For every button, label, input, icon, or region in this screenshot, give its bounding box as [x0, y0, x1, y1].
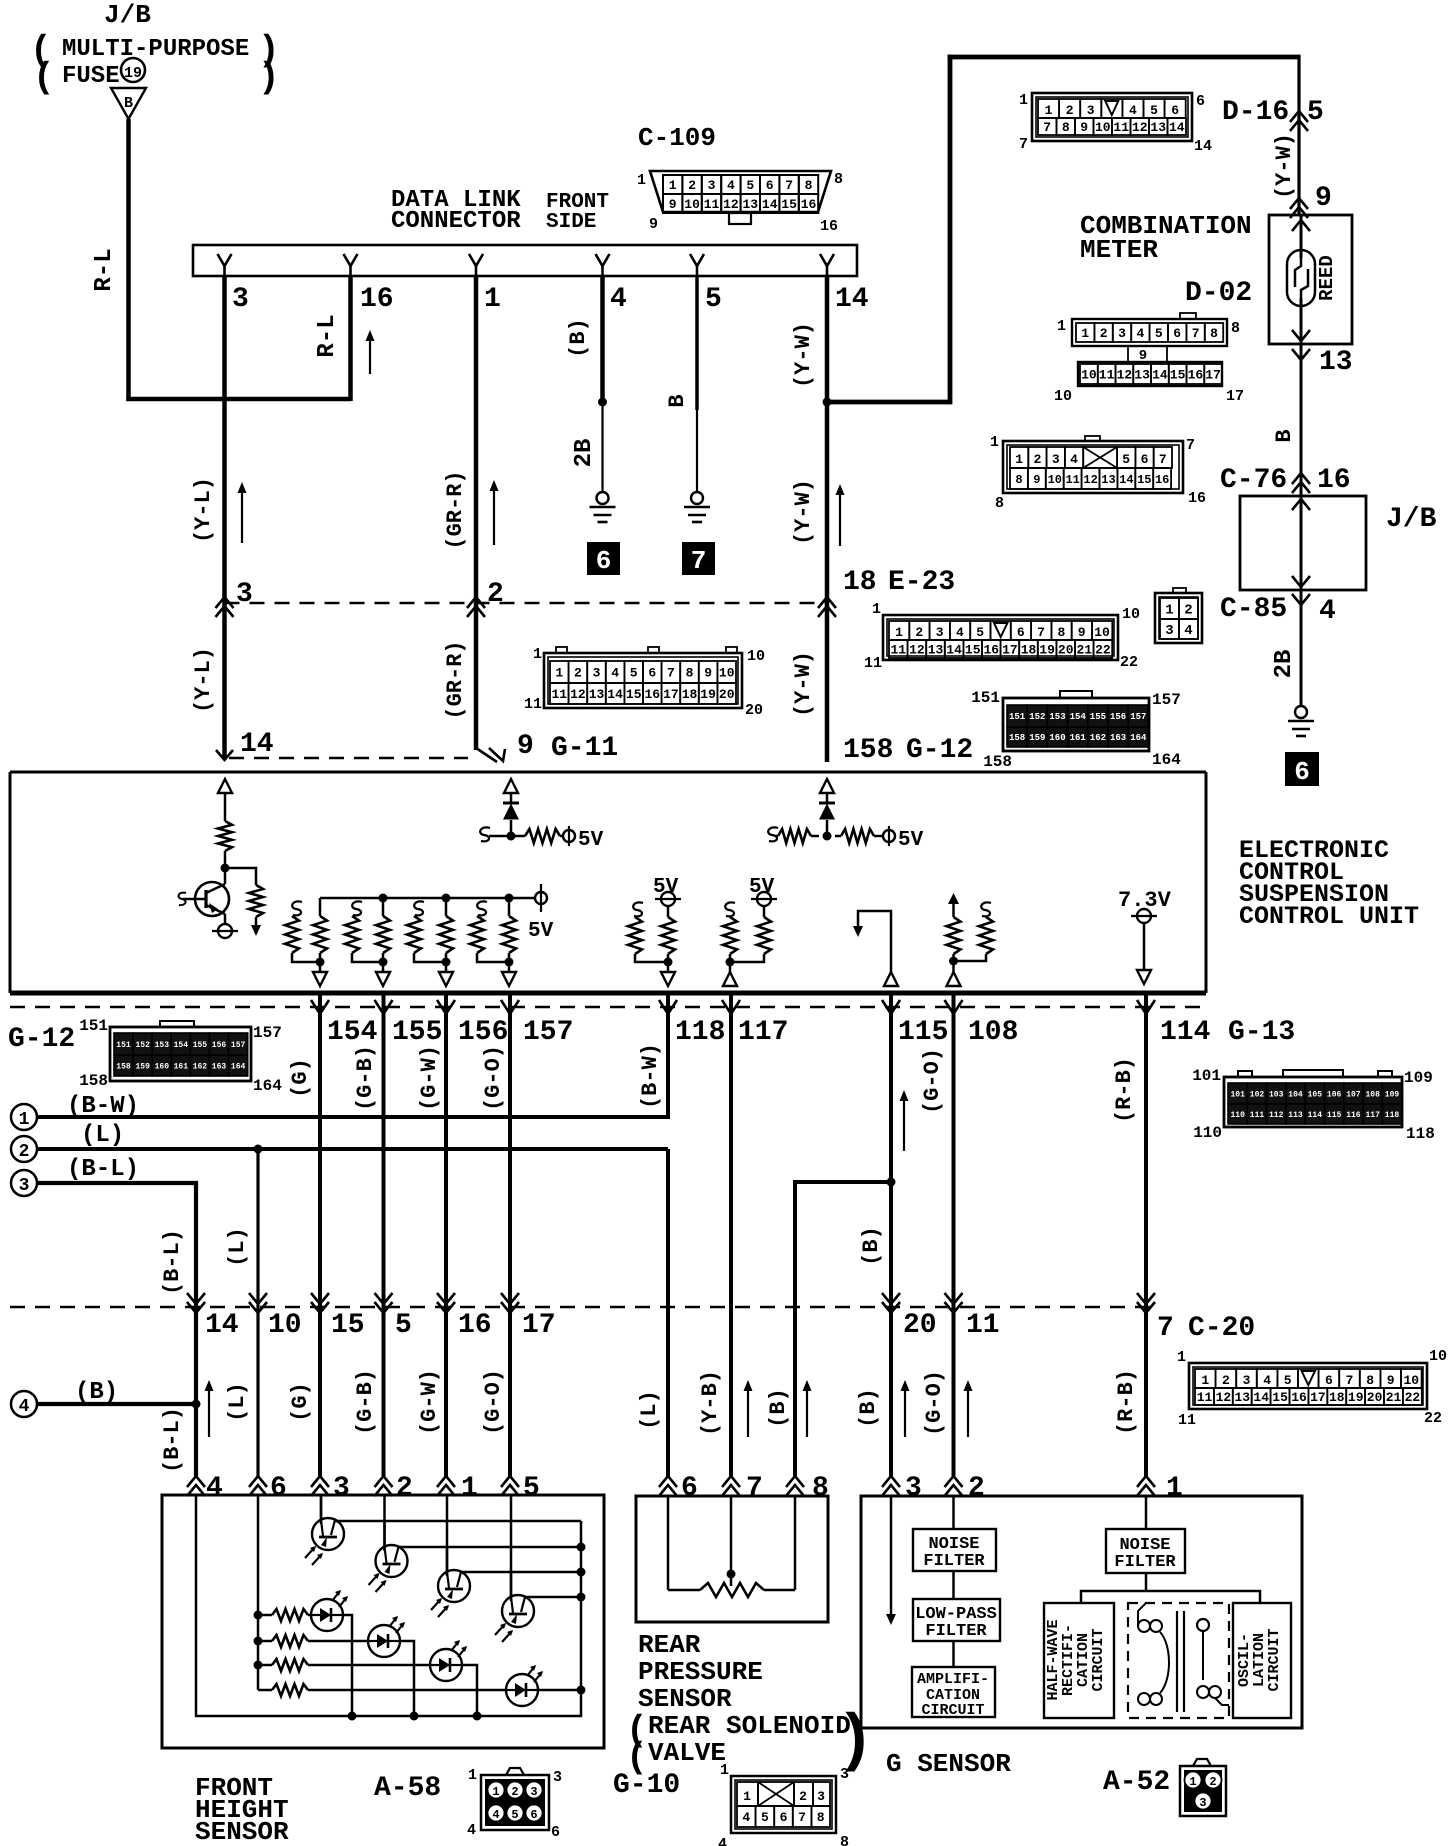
svg-text:FILTER: FILTER [925, 1622, 987, 1641]
svg-text:1: 1 [1201, 1373, 1209, 1388]
svg-text:12: 12 [1216, 1390, 1232, 1405]
photo arrows PT2 [369, 1573, 387, 1592]
svg-text:152: 152 [135, 1041, 150, 1050]
svg-text:110: 110 [1193, 1124, 1222, 1142]
svg-text:11: 11 [864, 655, 882, 672]
svg-text:10: 10 [1054, 388, 1072, 405]
junction dot pin 14 [823, 398, 832, 407]
connector line C-20 dashed [10, 1306, 1158, 1308]
resistor pair pin 154 right [313, 898, 327, 972]
wire ecu pin 157 [508, 995, 512, 1014]
potentiometer [668, 1496, 795, 1597]
svg-text:2: 2 [799, 1789, 807, 1804]
ecu pin 156 output arrow [439, 972, 453, 986]
svg-text:5: 5 [630, 666, 638, 681]
half-wave rectification circuit box [1044, 1603, 1114, 1718]
svg-text:158: 158 [1009, 733, 1025, 743]
svg-text:(G-W): (G-W) [417, 1045, 442, 1111]
svg-text:157: 157 [253, 1024, 282, 1042]
svg-text:22: 22 [1120, 654, 1138, 671]
arrow up (GR-R) [493, 488, 495, 545]
svg-text:101: 101 [1192, 1067, 1221, 1085]
svg-text:113: 113 [1288, 1111, 1303, 1120]
svg-text:106: 106 [1327, 1090, 1342, 1099]
wire [952, 1571, 955, 1599]
svg-text:1: 1 [461, 1473, 478, 1504]
diode D1 [503, 803, 519, 836]
chevron reed pin 13 [1292, 349, 1310, 360]
svg-text:1: 1 [1166, 1473, 1183, 1504]
svg-text:CIRCUIT: CIRCUIT [1090, 1628, 1107, 1691]
svg-text:10: 10 [1081, 368, 1097, 383]
bus junction dot [348, 1712, 357, 1721]
svg-text:160: 160 [1049, 733, 1065, 743]
svg-text:14: 14 [240, 729, 274, 760]
wire R-L from fuse to pin 16 [126, 119, 350, 401]
svg-text:164: 164 [1152, 751, 1181, 769]
connector line E-23 dashed [225, 602, 828, 604]
svg-text:1: 1 [1165, 603, 1173, 619]
svg-text:9: 9 [1078, 625, 1086, 640]
svg-text:(B-L): (B-L) [160, 1407, 185, 1473]
svg-text:19: 19 [1348, 1390, 1364, 1405]
ground symbol right [1295, 706, 1307, 718]
svg-text:VALVE: VALVE [648, 1738, 726, 1768]
svg-text:6: 6 [270, 1473, 287, 1504]
svg-text:(L): (L) [225, 1382, 250, 1422]
svg-text:9: 9 [517, 731, 534, 762]
arrow up (Y-W) [839, 492, 841, 546]
chevron at D-16 pin 5 [1290, 111, 1308, 122]
feed junction dot [254, 1661, 263, 1670]
svg-text:162: 162 [1090, 733, 1106, 743]
svg-text:17: 17 [663, 687, 679, 702]
svg-text:5V: 5V [578, 829, 604, 852]
svg-text:12: 12 [909, 643, 925, 658]
svg-text:(Y-W): (Y-W) [791, 651, 816, 717]
svg-text:(G-B): (G-B) [353, 1369, 378, 1435]
sensor pin 1 chevron [1137, 1476, 1155, 1487]
svg-text:2: 2 [396, 1473, 413, 1504]
svg-text:FILTER: FILTER [923, 1552, 985, 1571]
wire [255, 917, 258, 926]
chevron C-20 pin 7 [1137, 1302, 1155, 1313]
svg-text:17: 17 [1205, 368, 1221, 383]
svg-text:14: 14 [1152, 368, 1168, 383]
svg-text:G SENSOR: G SENSOR [886, 1749, 1011, 1779]
svg-text:4: 4 [1070, 452, 1078, 467]
fork at G-12 pin 157 [501, 1000, 519, 1014]
svg-text:(B-L): (B-L) [67, 1156, 139, 1183]
svg-text:REED: REED [1316, 255, 1338, 301]
svg-text:J/B: J/B [1386, 504, 1437, 535]
connector G-11 drawing [524, 646, 765, 719]
LED2 output wire [400, 1641, 414, 1716]
svg-text:103: 103 [1269, 1090, 1284, 1099]
svg-text:3: 3 [1052, 452, 1060, 467]
wire (L) from terminal 2 [37, 1147, 668, 1151]
wire [826, 793, 829, 804]
svg-text:151: 151 [1009, 712, 1026, 722]
chevron C-20 left pin 5 [375, 1302, 393, 1313]
fork at G-12 pin 154 [311, 1000, 329, 1014]
ecu 108 internal arrow [948, 893, 959, 917]
phototransistor PT2 [376, 1545, 408, 1577]
diode D2 [819, 803, 835, 836]
resistor LED3 [258, 1659, 430, 1671]
photo arrows PT1 [305, 1546, 323, 1565]
svg-text:D-16: D-16 [1222, 97, 1289, 128]
svg-text:1: 1 [468, 1767, 477, 1784]
svg-text:154: 154 [174, 1041, 189, 1050]
svg-text:4: 4 [611, 666, 619, 681]
svg-text:11: 11 [1113, 120, 1129, 135]
svg-text:1: 1 [533, 646, 542, 663]
svg-text:118: 118 [1406, 1125, 1435, 1143]
svg-text:A-58: A-58 [374, 1773, 441, 1804]
svg-text:158: 158 [79, 1072, 108, 1090]
svg-text:2: 2 [19, 1142, 30, 1162]
wire 108 (G-O) [952, 1014, 956, 1476]
photo arrows PT3 [431, 1598, 449, 1617]
svg-text:4: 4 [1129, 103, 1137, 118]
svg-text:16: 16 [820, 218, 838, 235]
arrow up (Y-L) [241, 490, 243, 543]
svg-text:158: 158 [983, 753, 1012, 771]
svg-text:20: 20 [1058, 643, 1074, 658]
connector A-58 drawing [467, 1767, 562, 1841]
svg-text:9: 9 [1033, 473, 1040, 487]
label 158 G-12 [843, 735, 973, 766]
PT2 collector line to bus [399, 1546, 582, 1549]
svg-text:9: 9 [1080, 120, 1088, 135]
feed junction dot [254, 1637, 263, 1646]
svg-text:159: 159 [1029, 733, 1045, 743]
svg-text:(Y-B): (Y-B) [698, 1370, 723, 1436]
resistor pair pin 156 right [439, 898, 453, 972]
PT4 collector line to bus [525, 1596, 581, 1599]
low-pass filter box [913, 1599, 1000, 1641]
svg-text:): ) [836, 1706, 874, 1778]
svg-text:CIRCUIT: CIRCUIT [921, 1702, 984, 1719]
transistor Q1 PNP [179, 882, 229, 916]
chevron reed bottom inside [1292, 330, 1310, 341]
svg-text:6: 6 [1171, 103, 1179, 118]
svg-text:MULTI-PURPOSE: MULTI-PURPOSE [62, 36, 249, 63]
svg-text:3: 3 [553, 1769, 562, 1786]
svg-text:13: 13 [589, 687, 605, 702]
wire pin 1 internal [1145, 1496, 1148, 1529]
bus junction dot [410, 1712, 419, 1721]
svg-text:6: 6 [596, 546, 612, 576]
terminal 4 circled [11, 1391, 37, 1417]
svg-text:4: 4 [1184, 623, 1192, 639]
svg-text:4: 4 [956, 625, 964, 640]
svg-text:3: 3 [1087, 103, 1095, 118]
ground ref box 7 [682, 542, 715, 576]
terminal 2 circled [11, 1136, 37, 1162]
svg-text:158: 158 [843, 735, 893, 766]
resistor 117 right [730, 906, 771, 962]
ground ref box 6 right [1285, 752, 1319, 787]
wire (L) branch down [256, 1149, 259, 1476]
svg-text:8: 8 [817, 1810, 825, 1825]
svg-text:153: 153 [155, 1041, 170, 1050]
svg-text:2: 2 [1034, 452, 1042, 467]
wire 117 (Y-B) [729, 1014, 733, 1476]
connector G-12 drawing left [79, 1017, 282, 1095]
wire 118 (B-W) to terminal 1 [36, 1014, 668, 1117]
svg-text:CIRCUIT: CIRCUIT [1266, 1628, 1283, 1691]
svg-text:C-109: C-109 [638, 123, 716, 153]
svg-text:4: 4 [727, 178, 735, 193]
wire (L) down to rear sensor [666, 1149, 670, 1476]
wire [560, 835, 563, 838]
svg-text:B: B [665, 394, 690, 407]
svg-text:7: 7 [1157, 1313, 1174, 1344]
svg-text:101: 101 [1230, 1090, 1245, 1099]
svg-text:2: 2 [1184, 603, 1192, 619]
svg-text:J/B: J/B [104, 0, 151, 30]
ecu pin 154 output arrow [313, 972, 327, 986]
svg-text:3: 3 [817, 1789, 825, 1804]
svg-text:16: 16 [1317, 465, 1351, 496]
svg-text:14: 14 [1194, 138, 1212, 155]
svg-text:(Y-W): (Y-W) [791, 479, 816, 545]
svg-text:AMPLIFI-: AMPLIFI- [917, 1671, 989, 1688]
svg-text:6: 6 [530, 1808, 537, 1822]
pin 18 E-23 chevron [818, 597, 836, 608]
phototransistor PT4 leads [509, 1495, 527, 1624]
svg-text:10: 10 [1403, 1373, 1419, 1388]
chevron at C-76 pin 16 [1292, 473, 1310, 484]
fork at G-12 pin 118 [659, 1000, 677, 1014]
arrow up (B-L) [208, 1388, 210, 1437]
svg-text:6: 6 [780, 1810, 788, 1825]
sensor pin 2 chevron [375, 1476, 393, 1487]
ecu pin 114 output arrow [1137, 970, 1151, 984]
bus junction dot [473, 1712, 482, 1721]
svg-text:16: 16 [644, 687, 660, 702]
fork at G-12 pin 155 [375, 1000, 393, 1014]
svg-text:157: 157 [231, 1041, 246, 1050]
wire pin 16 R-L [348, 276, 353, 401]
svg-text:5: 5 [1150, 103, 1158, 118]
LED4 output wire [538, 1689, 581, 1692]
svg-text:1: 1 [1015, 452, 1023, 467]
svg-text:118: 118 [675, 1017, 725, 1048]
svg-text:20: 20 [719, 687, 735, 702]
LED4 emit arrows [527, 1665, 543, 1682]
svg-text:159: 159 [135, 1062, 150, 1071]
resistor 108 right [954, 902, 994, 961]
svg-text:1: 1 [1057, 318, 1066, 335]
LED4 [506, 1674, 538, 1706]
svg-text:C-76: C-76 [1220, 465, 1287, 496]
resistor R2 [249, 885, 263, 917]
svg-text:7: 7 [691, 546, 707, 576]
junction dot terminal2 branch [254, 1145, 263, 1154]
svg-text:1: 1 [669, 178, 677, 193]
chevron C-20 left pin 10 [249, 1302, 267, 1313]
svg-text:16: 16 [1188, 368, 1204, 383]
amplification circuit box [912, 1667, 995, 1719]
svg-text:7: 7 [1346, 1373, 1354, 1388]
svg-text:9: 9 [1315, 183, 1332, 214]
svg-text:11: 11 [551, 687, 567, 702]
svg-text:13: 13 [742, 197, 758, 212]
connector C-76 drawing [990, 434, 1206, 512]
chevron C-20 left pin 15 [311, 1302, 329, 1313]
ecu pin158 entry arrow [820, 779, 834, 793]
data link connector box [193, 245, 857, 276]
wire (B-L) from terminal 3 [37, 1183, 196, 1476]
svg-text:157: 157 [1152, 691, 1181, 709]
sensor pin 5 chevron [501, 1476, 519, 1487]
fuse link triangle B [111, 88, 146, 119]
label C-85 4 [1220, 594, 1336, 627]
svg-text:9: 9 [1387, 1373, 1395, 1388]
svg-text:156: 156 [1110, 712, 1126, 722]
svg-text:8: 8 [805, 178, 813, 193]
connector C-85 drawing [1155, 588, 1202, 643]
label REAR PRESSURE SENSOR (REAR SOLENOID VALVE) [626, 1630, 874, 1778]
fork at G-12 pin 156 [437, 1000, 455, 1014]
svg-text:108: 108 [1365, 1090, 1380, 1099]
svg-text:10: 10 [1429, 1348, 1447, 1365]
connector E-23 drawing [864, 601, 1140, 672]
svg-text:1: 1 [484, 284, 501, 315]
junction dot [823, 832, 832, 841]
junction dot 115 branch [887, 1178, 896, 1187]
wire emitter down [224, 914, 227, 924]
fork at G-12 pin 115 [882, 1000, 900, 1014]
svg-text:15: 15 [626, 687, 642, 702]
svg-text:20: 20 [1367, 1390, 1383, 1405]
svg-text:5: 5 [746, 178, 754, 193]
svg-text:5: 5 [976, 625, 984, 640]
svg-text:7: 7 [1159, 452, 1167, 467]
wire ecu pin 154 [318, 995, 322, 1014]
LED2 emit arrows [389, 1616, 405, 1633]
svg-text:16: 16 [458, 1310, 492, 1341]
svg-text:G-11: G-11 [551, 733, 618, 764]
svg-text:SENSOR: SENSOR [638, 1684, 732, 1714]
svg-text:18: 18 [682, 687, 698, 702]
svg-text:10: 10 [1048, 473, 1062, 487]
chevron at C-85 pin 4 [1292, 594, 1310, 605]
svg-text:CONTROL UNIT: CONTROL UNIT [1239, 902, 1419, 931]
LED3 emit arrows [451, 1640, 467, 1657]
sensor pin 6 chevron [249, 1476, 267, 1487]
svg-text:14: 14 [835, 284, 869, 315]
label 9 G-11 [517, 731, 618, 764]
svg-text:160: 160 [155, 1062, 170, 1071]
sensor pin 7 chevron [722, 1476, 740, 1487]
svg-text:153: 153 [1049, 712, 1065, 722]
arrow up (G-O) [967, 1388, 969, 1437]
svg-text:1: 1 [990, 434, 999, 451]
wire ecu pin 156 [444, 995, 448, 1014]
svg-text:15: 15 [1170, 368, 1186, 383]
svg-text:(G): (G) [288, 1382, 313, 1422]
svg-text:151: 151 [971, 689, 1000, 707]
svg-text:G-13: G-13 [1228, 1017, 1295, 1048]
LED1 [311, 1599, 343, 1631]
wire pin 1 (GR-R) [474, 276, 479, 750]
svg-text:11: 11 [1099, 368, 1115, 383]
svg-text:16: 16 [1155, 473, 1169, 487]
junction dot [949, 957, 958, 966]
svg-text:14: 14 [762, 197, 778, 212]
photo arrows PT4 [495, 1623, 513, 1642]
svg-text:164: 164 [231, 1062, 246, 1071]
svg-text:5: 5 [395, 1310, 412, 1341]
svg-text:12: 12 [1117, 368, 1133, 383]
svg-text:162: 162 [193, 1062, 208, 1071]
sensor pin 3 chevron [311, 1476, 329, 1487]
svg-text:2: 2 [1066, 103, 1074, 118]
svg-text:3: 3 [1165, 623, 1173, 639]
svg-text:(R-B): (R-B) [1112, 1057, 1137, 1123]
svg-text:10: 10 [747, 648, 765, 665]
svg-text:11: 11 [704, 197, 720, 212]
label ELECTRONIC CONTROL SUSPENSION CONTROL UNIT [1239, 836, 1419, 931]
svg-text:5: 5 [1284, 1373, 1292, 1388]
connector C-109 [637, 123, 843, 235]
svg-text:115: 115 [898, 1017, 948, 1048]
connector A-52 drawing [1180, 1759, 1226, 1816]
junction dot terminal4 [192, 1400, 201, 1409]
resistor pair pin 155 right [376, 898, 390, 972]
svg-text:8: 8 [1057, 625, 1065, 640]
svg-text:(G-O): (G-O) [922, 1370, 947, 1436]
svg-text:157: 157 [1130, 712, 1146, 722]
5V bus terminal [535, 884, 547, 912]
connector D-16 drawing [1019, 92, 1212, 155]
5V terminal 117 [751, 892, 777, 906]
arrow up (B) gsensor [904, 1388, 906, 1437]
svg-text:2: 2 [915, 625, 923, 640]
svg-text:REAR: REAR [638, 1630, 701, 1660]
wire pin 3 (Y-L) [222, 276, 227, 758]
ground ref box 6 [587, 542, 620, 576]
svg-text:4: 4 [1136, 326, 1144, 341]
svg-text:12: 12 [1132, 120, 1148, 135]
resistor LED1 [258, 1609, 311, 1621]
svg-text:4: 4 [19, 1397, 30, 1417]
svg-text:1: 1 [1189, 1775, 1196, 1789]
svg-text:6: 6 [1294, 757, 1310, 787]
svg-text:3: 3 [236, 579, 253, 610]
connector D-02 drawing [1054, 313, 1244, 405]
svg-text:6: 6 [1325, 1373, 1333, 1388]
svg-text:5: 5 [1122, 452, 1130, 467]
svg-text:17: 17 [1226, 388, 1244, 405]
svg-text:117: 117 [1365, 1111, 1380, 1120]
svg-text:(G-B): (G-B) [353, 1045, 378, 1111]
terminal circle [212, 924, 238, 938]
svg-text:161: 161 [174, 1062, 189, 1071]
svg-text:(G): (G) [288, 1058, 313, 1098]
svg-text:9: 9 [704, 666, 712, 681]
svg-text:SENSOR: SENSOR [195, 1817, 289, 1846]
svg-text:(B-L): (B-L) [160, 1229, 185, 1295]
svg-text:15: 15 [1272, 1390, 1288, 1405]
svg-text:(G-O): (G-O) [481, 1369, 506, 1435]
svg-text:20: 20 [903, 1310, 937, 1341]
svg-text:(B-W): (B-W) [638, 1043, 663, 1109]
